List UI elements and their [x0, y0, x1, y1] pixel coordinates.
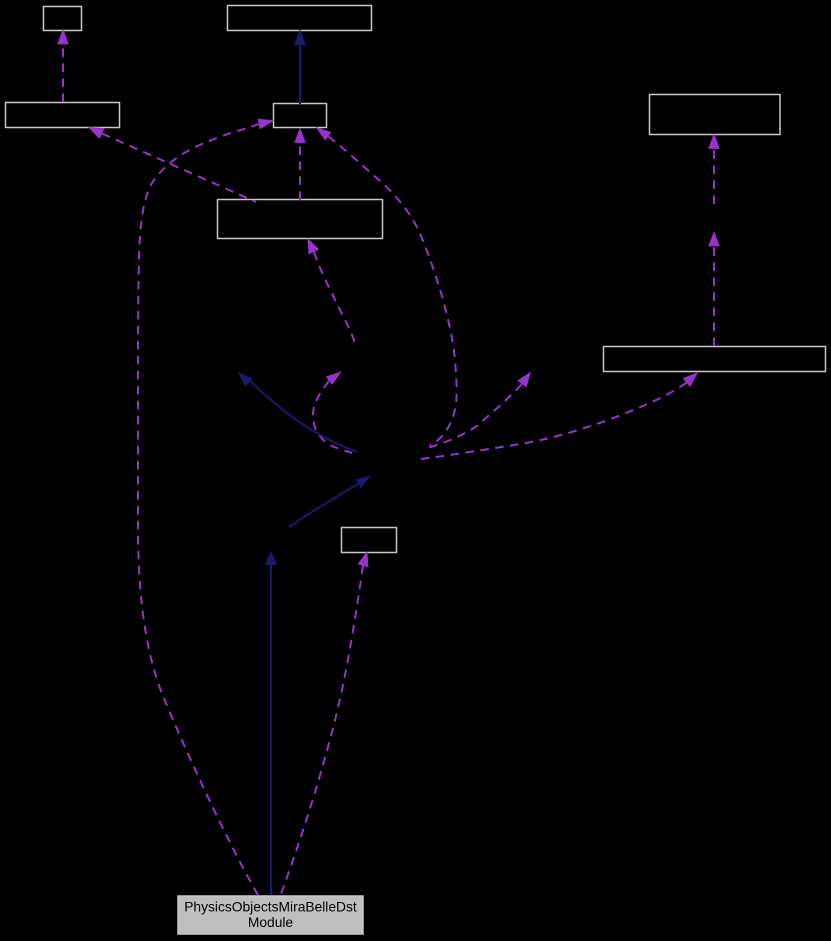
svg-text:PhysicsObjectsMiraBelleDst: PhysicsObjectsMiraBelleDst [184, 900, 357, 915]
svg-text:Module: Module [248, 915, 294, 930]
